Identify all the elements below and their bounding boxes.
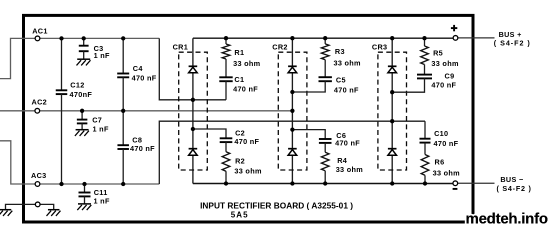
svg-text:33 ohm: 33 ohm bbox=[233, 59, 261, 68]
svg-text:( S4-F2 ): ( S4-F2 ) bbox=[494, 38, 531, 47]
svg-text:R2: R2 bbox=[235, 157, 245, 166]
svg-text:BUS −: BUS − bbox=[500, 175, 523, 184]
svg-text:C9: C9 bbox=[445, 72, 455, 81]
svg-text:1 nF: 1 nF bbox=[93, 125, 109, 134]
svg-text:AC1: AC1 bbox=[32, 26, 48, 35]
svg-text:INPUT RECTIFIER BOARD ( A3255-: INPUT RECTIFIER BOARD ( A3255-01 ) bbox=[200, 201, 353, 211]
svg-text:( S4-F2 ): ( S4-F2 ) bbox=[497, 184, 532, 193]
svg-text:R3: R3 bbox=[335, 47, 345, 56]
svg-text:1 nF: 1 nF bbox=[94, 197, 110, 206]
svg-text:C4: C4 bbox=[133, 64, 144, 73]
svg-text:R5: R5 bbox=[433, 49, 443, 58]
svg-text:R1: R1 bbox=[234, 48, 244, 57]
svg-text:470nF: 470nF bbox=[70, 90, 93, 99]
svg-text:470 nF: 470 nF bbox=[233, 85, 258, 94]
svg-text:medteh.info: medteh.info bbox=[466, 210, 548, 227]
svg-text:R6: R6 bbox=[435, 157, 445, 166]
svg-text:33 ohm: 33 ohm bbox=[334, 59, 362, 68]
svg-text:470 nF: 470 nF bbox=[335, 138, 360, 147]
svg-text:AC3: AC3 bbox=[31, 171, 47, 180]
svg-text:C7: C7 bbox=[92, 116, 102, 125]
svg-text:470 nF: 470 nF bbox=[434, 139, 459, 148]
svg-text:33 ohm: 33 ohm bbox=[234, 167, 262, 176]
svg-text:33 ohm: 33 ohm bbox=[336, 165, 364, 174]
svg-text:470 nF: 470 nF bbox=[132, 73, 157, 82]
svg-text:AC2: AC2 bbox=[32, 97, 48, 106]
svg-text:470 nF: 470 nF bbox=[234, 137, 259, 146]
svg-text:C10: C10 bbox=[434, 129, 448, 138]
svg-text:CR2: CR2 bbox=[272, 43, 288, 52]
svg-text:C1: C1 bbox=[234, 75, 244, 84]
svg-text:C12: C12 bbox=[70, 81, 84, 90]
svg-text:1 nF: 1 nF bbox=[94, 51, 110, 60]
svg-text:470 nF: 470 nF bbox=[431, 81, 456, 90]
svg-text:33 ohm: 33 ohm bbox=[431, 59, 459, 68]
svg-text:33 ohm: 33 ohm bbox=[433, 169, 461, 178]
svg-text:CR1: CR1 bbox=[173, 43, 189, 52]
svg-text:5A5: 5A5 bbox=[231, 211, 249, 220]
svg-text:470 nF: 470 nF bbox=[130, 144, 155, 153]
svg-text:470 nF: 470 nF bbox=[334, 86, 359, 95]
svg-text:CR3: CR3 bbox=[372, 43, 388, 52]
svg-text:C5: C5 bbox=[336, 76, 346, 85]
